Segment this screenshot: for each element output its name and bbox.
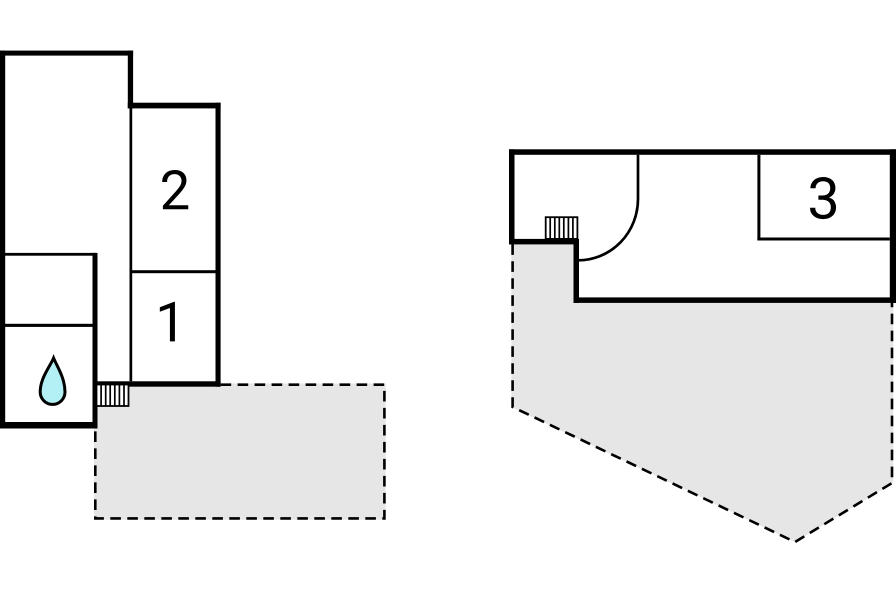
room 1 bottom wall (95, 381, 221, 386)
right building step wall (574, 239, 580, 303)
rooms 1-2 left wall (130, 108, 133, 381)
room 3 bottom wall (757, 238, 889, 241)
left building outer wall bottom (0, 422, 98, 429)
right building outer wall top (509, 149, 896, 155)
left stairs (97, 385, 129, 407)
room 2 top wall (128, 103, 221, 109)
left building outer wall left (0, 51, 5, 429)
right building outer wall left (509, 149, 515, 244)
right patio terrace gray fill (511, 241, 893, 542)
divider wall between room 1 and room 2 (130, 270, 216, 273)
wall between bathroom and hall (93, 253, 98, 429)
left building interior white (0, 51, 221, 429)
right building interior white (509, 149, 896, 303)
right patio dashed border (513, 244, 892, 542)
water drop bathroom icon (40, 358, 65, 404)
rooms 1-2 right wall (216, 103, 221, 387)
anteroom top wall (0, 253, 96, 256)
right building outer wall right (890, 149, 896, 303)
room 3 left wall (757, 155, 760, 241)
room 1 label (160, 302, 175, 342)
left patio dashed border (95, 385, 384, 519)
left building outer wall right upper (128, 51, 133, 109)
right building outer wall bottom (574, 297, 896, 303)
left patio terrace gray fill (94, 384, 386, 520)
room 2 label (162, 170, 188, 209)
door swing partition and arc (578, 155, 638, 260)
room 3 label (810, 177, 836, 219)
right stairs (546, 217, 578, 239)
right building entry bottom wall (509, 239, 579, 245)
left building outer wall top (0, 51, 133, 56)
anteroom bathroom divider wall (0, 324, 96, 327)
